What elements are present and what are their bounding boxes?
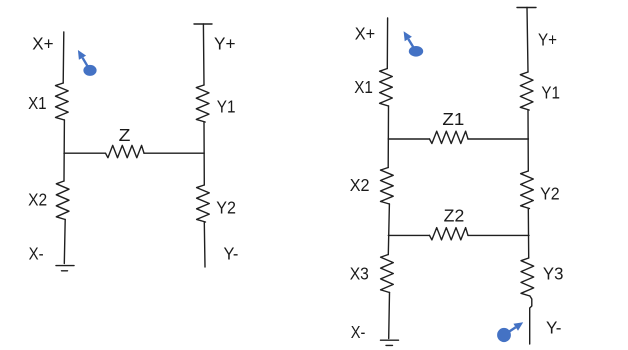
resistor Z2 (right circuit, lower horizontal bridge) — [430, 228, 469, 240]
resistor Y1 (right circuit) — [520, 72, 533, 110]
wire: Y- lead below Y3 with small jog (right circuit) — [530, 296, 532, 344]
svg-text:X2: X2 — [28, 189, 47, 209]
svg-text:X1: X1 — [28, 93, 46, 113]
svg-text:Y+: Y+ — [538, 30, 557, 50]
wire: Y+ lead, top of Y leg (left circuit) — [202, 24, 205, 85]
wire: Z1 node to X leg (right circuit) — [388, 138, 429, 140]
wire: X leg between X1 and X2, through Z node (left circuit) — [63, 120, 65, 181]
wire: Z2 node to Y leg (right circuit) — [468, 234, 529, 236]
wire: Y+ lead, top of Y leg (right circuit) — [527, 8, 528, 73]
resistor Y2 (left circuit) — [197, 185, 210, 222]
resistor Z (left circuit, horizontal bridge) — [106, 145, 145, 157]
svg-text:Z1: Z1 — [442, 109, 464, 129]
svg-text:Z2: Z2 — [444, 205, 465, 225]
wire: right circuit X+ lead (top of X leg) — [386, 18, 388, 69]
wire: Y- lead below Y2 (left circuit) — [203, 222, 206, 267]
svg-text:Z: Z — [119, 125, 131, 145]
wire: left circuit X+ lead (top of X leg) — [62, 32, 65, 83]
resistor X1 (right circuit) — [380, 69, 393, 107]
wire: X leg below X2 to ground (left circuit) — [63, 220, 66, 264]
svg-text:Y1: Y1 — [541, 83, 560, 103]
svg-text:X2: X2 — [350, 175, 370, 195]
resistor X1 (left circuit) — [56, 83, 69, 120]
terminal bar Y+ (left circuit) — [194, 23, 212, 25]
wire: Y leg between Y2 and Y3, through Z2 node (right circuit) — [527, 209, 529, 259]
mouse-click cursor annotation (right circuit bottom, dot with arrow up-right) — [497, 322, 523, 342]
resistor Y3 (right circuit) — [521, 258, 534, 296]
wire: Z node to Y leg (left circuit) — [144, 152, 204, 154]
ground symbol (left circuit) — [56, 266, 74, 271]
svg-text:Y+: Y+ — [214, 34, 236, 54]
resistor Y2 (right circuit) — [521, 171, 534, 209]
svg-text:Y-: Y- — [224, 243, 239, 263]
terminal bar Y+ (right circuit) — [517, 7, 536, 9]
resistor Y1 (left circuit) — [196, 85, 209, 122]
svg-text:X3: X3 — [350, 263, 369, 283]
svg-text:Y1: Y1 — [217, 97, 236, 117]
wire: X leg between X1 and X2, through Z1 node (right circuit) — [387, 106, 389, 168]
svg-text:X-: X- — [351, 322, 366, 342]
wire: Y leg between Y1 and Y2, through Z node (left circuit) — [203, 122, 205, 185]
mouse-click cursor annotation (left circuit, arrow up-left with dot) — [78, 50, 97, 76]
mouse-click cursor annotation (right circuit top, arrow up-left with dot) — [404, 31, 424, 56]
resistor X2 (right circuit) — [381, 168, 394, 205]
svg-text:Y3: Y3 — [543, 263, 564, 283]
svg-text:X+: X+ — [32, 34, 53, 54]
resistor Z1 (right circuit, upper horizontal bridge) — [430, 131, 469, 143]
svg-text:X1: X1 — [354, 77, 373, 97]
svg-text:Y-: Y- — [546, 318, 562, 338]
resistor X3 (right circuit) — [381, 255, 394, 293]
svg-text:X-: X- — [29, 243, 44, 263]
wire: Z1 node to Y leg (right circuit) — [468, 138, 528, 140]
wire: X leg below X3 to ground (right circuit) — [388, 293, 391, 339]
ground symbol (right circuit) — [381, 340, 399, 345]
svg-text:Y2: Y2 — [216, 198, 236, 218]
wire: Y leg between Y1 and Y2, through Z1 node (right circuit) — [527, 110, 529, 171]
svg-text:Y2: Y2 — [540, 184, 560, 204]
svg-text:X+: X+ — [355, 24, 375, 44]
wire: X leg between X2 and X3, through Z2 node (right circuit) — [388, 204, 389, 255]
wire: Z node to X leg (left circuit) — [64, 152, 106, 154]
resistor X2 (left circuit) — [56, 181, 69, 220]
wire: Z2 node to X leg (right circuit) — [388, 234, 429, 236]
